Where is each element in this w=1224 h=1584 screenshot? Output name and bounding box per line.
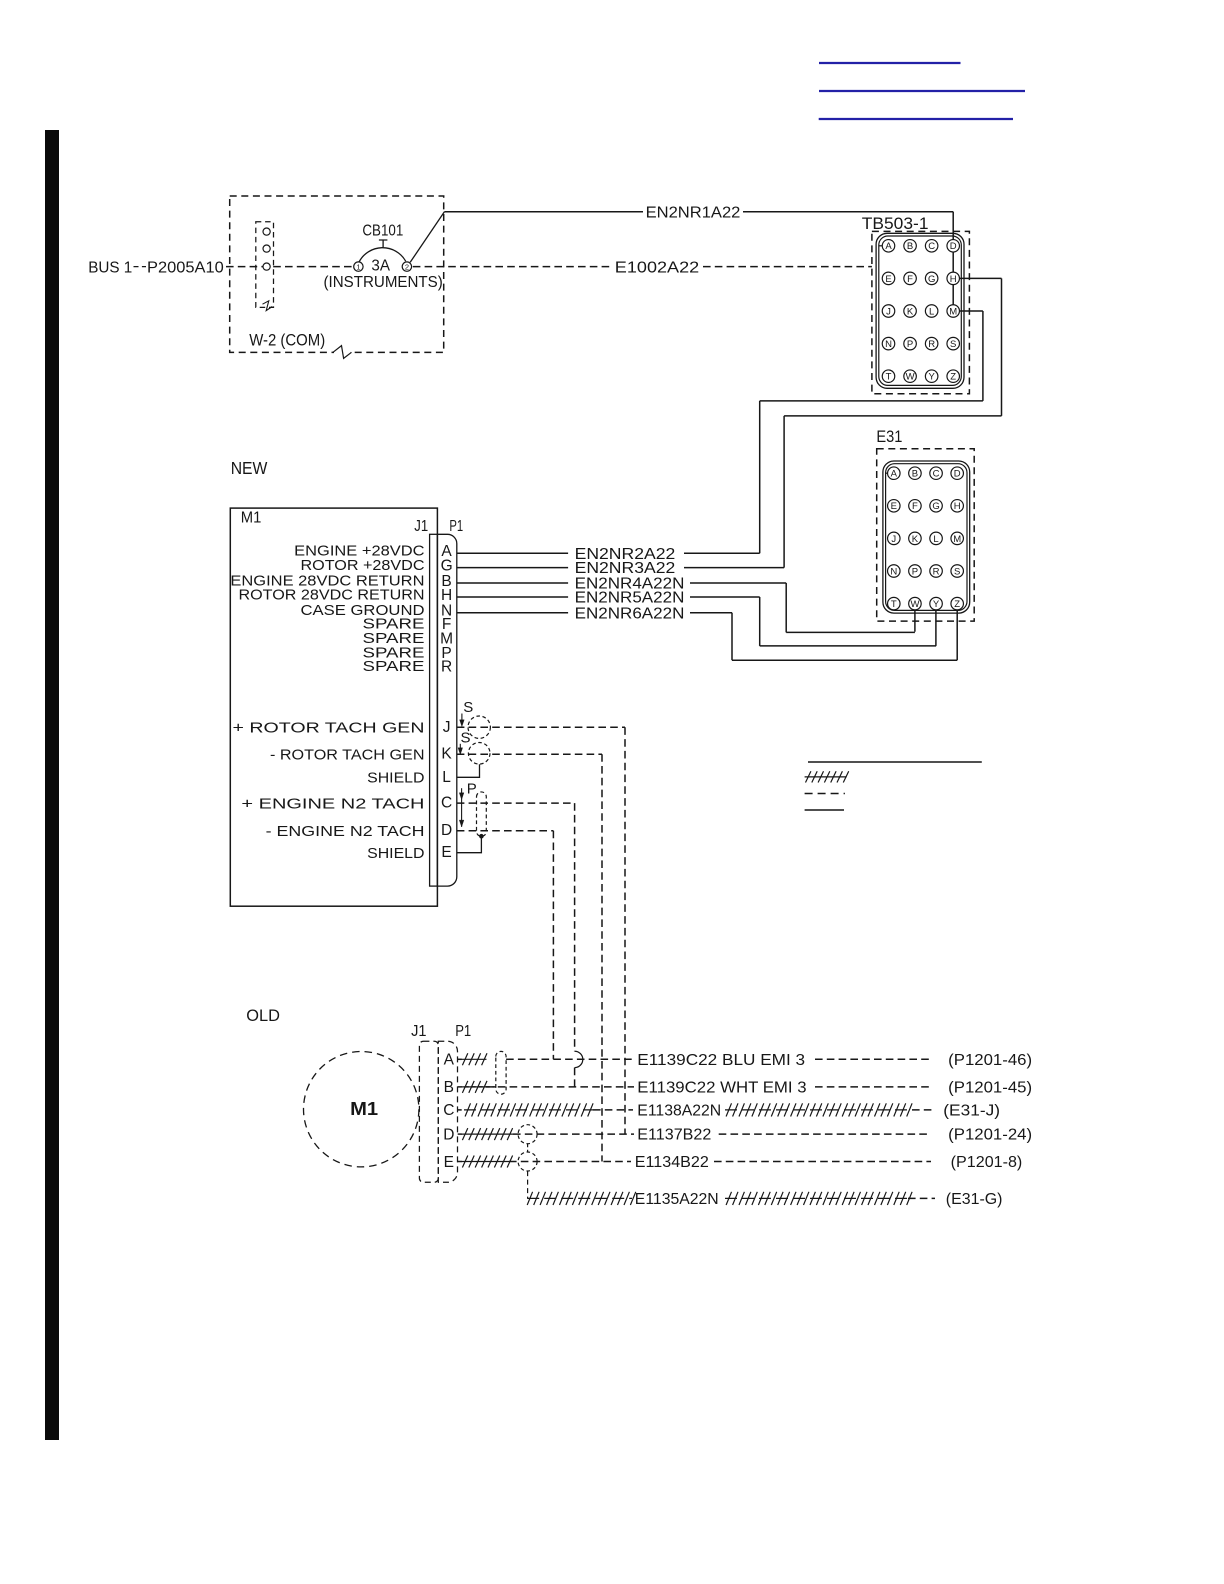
svg-text:2: 2 bbox=[405, 263, 409, 272]
svg-text:J1: J1 bbox=[414, 518, 428, 535]
svg-text:J: J bbox=[443, 719, 451, 736]
svg-text:N: N bbox=[885, 339, 892, 350]
svg-text:SHIELD: SHIELD bbox=[367, 845, 425, 862]
svg-text:Y: Y bbox=[933, 599, 940, 610]
svg-text:1: 1 bbox=[356, 263, 360, 272]
svg-text:C: C bbox=[443, 1102, 454, 1119]
svg-text:ROTOR 28VDC RETURN: ROTOR 28VDC RETURN bbox=[239, 586, 425, 603]
svg-text:D: D bbox=[954, 469, 961, 480]
svg-text:D: D bbox=[443, 1126, 454, 1143]
svg-text:S: S bbox=[950, 339, 956, 350]
svg-text:W: W bbox=[910, 599, 919, 610]
svg-text:H: H bbox=[441, 587, 452, 604]
svg-text:C: C bbox=[928, 241, 935, 252]
svg-text:Z: Z bbox=[950, 372, 956, 383]
svg-text:P: P bbox=[912, 566, 918, 577]
svg-text:E: E bbox=[891, 501, 897, 512]
svg-text:E1134B22: E1134B22 bbox=[635, 1154, 709, 1171]
svg-text:B: B bbox=[907, 241, 913, 252]
svg-text:B: B bbox=[912, 469, 918, 480]
svg-text:- ENGINE N2 TACH: - ENGINE N2 TACH bbox=[266, 823, 425, 840]
svg-text:E1138A22N: E1138A22N bbox=[637, 1103, 721, 1120]
svg-text:E1139C22 WHT EMI 3: E1139C22 WHT EMI 3 bbox=[637, 1080, 806, 1097]
svg-text:E1002A22: E1002A22 bbox=[615, 259, 700, 276]
svg-text:S: S bbox=[463, 699, 473, 716]
svg-text:EN2NR5A22N: EN2NR5A22N bbox=[575, 590, 685, 607]
svg-text:(P1201-8): (P1201-8) bbox=[951, 1154, 1023, 1171]
svg-text:R: R bbox=[928, 339, 935, 350]
svg-text:T: T bbox=[886, 372, 892, 383]
svg-text:- ROTOR TACH GEN: - ROTOR TACH GEN bbox=[270, 747, 425, 764]
svg-text:W-2 (COM): W-2 (COM) bbox=[249, 332, 325, 350]
svg-text:L: L bbox=[933, 534, 938, 545]
svg-text:G: G bbox=[928, 274, 935, 285]
svg-text:F: F bbox=[907, 274, 913, 285]
svg-text:+ ROTOR TACH GEN: + ROTOR TACH GEN bbox=[233, 720, 425, 737]
svg-text:J: J bbox=[886, 306, 891, 317]
svg-text:D: D bbox=[441, 822, 452, 839]
svg-text:E: E bbox=[441, 844, 451, 861]
svg-text:F: F bbox=[912, 501, 918, 512]
svg-text:A: A bbox=[885, 241, 892, 252]
svg-text:K: K bbox=[912, 534, 919, 545]
svg-text:SHIELD: SHIELD bbox=[367, 770, 425, 787]
svg-text:BUS 1: BUS 1 bbox=[88, 259, 132, 276]
svg-text:Y: Y bbox=[928, 372, 935, 383]
svg-text:W: W bbox=[906, 372, 915, 383]
svg-text:E1139C22 BLU EMI 3: E1139C22 BLU EMI 3 bbox=[637, 1052, 805, 1069]
svg-text:(INSTRUMENTS): (INSTRUMENTS) bbox=[324, 274, 443, 291]
svg-text:C: C bbox=[441, 795, 452, 812]
svg-text:L: L bbox=[442, 769, 451, 786]
svg-text:M: M bbox=[949, 306, 957, 317]
svg-text:S: S bbox=[461, 730, 471, 747]
svg-text:J1: J1 bbox=[411, 1023, 426, 1040]
svg-text:P: P bbox=[467, 781, 477, 798]
svg-text:EN2NR6A22N: EN2NR6A22N bbox=[575, 605, 685, 622]
svg-text:(P1201-45): (P1201-45) bbox=[948, 1080, 1032, 1097]
svg-text:P1: P1 bbox=[455, 1023, 471, 1040]
svg-text:P2005A10: P2005A10 bbox=[147, 259, 224, 276]
svg-text:D: D bbox=[950, 241, 957, 252]
svg-text:E1137B22: E1137B22 bbox=[637, 1127, 711, 1144]
svg-text:SPARE: SPARE bbox=[363, 658, 425, 675]
svg-text:E1135A22N: E1135A22N bbox=[635, 1191, 719, 1208]
svg-text:B: B bbox=[444, 1079, 454, 1096]
svg-text:TB503-1: TB503-1 bbox=[862, 215, 929, 233]
svg-text:G: G bbox=[932, 501, 939, 512]
svg-text:3A: 3A bbox=[371, 258, 390, 275]
svg-text:E31: E31 bbox=[876, 428, 902, 446]
svg-text:+ ENGINE N2 TACH: + ENGINE N2 TACH bbox=[241, 795, 424, 812]
svg-text:H: H bbox=[954, 501, 961, 512]
svg-text:M1: M1 bbox=[350, 1098, 378, 1119]
svg-text:C: C bbox=[933, 469, 940, 480]
svg-text:S: S bbox=[954, 566, 960, 577]
svg-text:E: E bbox=[444, 1154, 454, 1171]
svg-text:OLD: OLD bbox=[246, 1006, 280, 1025]
svg-text:(P1201-24): (P1201-24) bbox=[948, 1127, 1032, 1144]
svg-text:P: P bbox=[907, 339, 913, 350]
svg-text:A: A bbox=[444, 1052, 455, 1069]
svg-text:M: M bbox=[953, 534, 961, 545]
svg-text:K: K bbox=[907, 306, 914, 317]
svg-text:R: R bbox=[933, 566, 940, 577]
svg-text:(E31-G): (E31-G) bbox=[946, 1191, 1003, 1208]
svg-text:E: E bbox=[885, 274, 891, 285]
svg-text:M1: M1 bbox=[241, 509, 262, 526]
svg-text:T: T bbox=[891, 599, 897, 610]
svg-text:K: K bbox=[441, 746, 452, 763]
svg-text:H: H bbox=[950, 274, 957, 285]
svg-text:EN2NR1A22: EN2NR1A22 bbox=[646, 205, 741, 222]
svg-text:NEW: NEW bbox=[231, 458, 268, 478]
svg-text:P1: P1 bbox=[449, 518, 463, 535]
svg-text:A: A bbox=[891, 469, 898, 480]
svg-text:(P1201-46): (P1201-46) bbox=[948, 1052, 1032, 1069]
svg-text:R: R bbox=[441, 658, 452, 675]
svg-text:L: L bbox=[929, 306, 934, 317]
svg-text:J: J bbox=[891, 534, 896, 545]
svg-text:(E31-J): (E31-J) bbox=[943, 1103, 1000, 1120]
svg-text:Z: Z bbox=[954, 599, 960, 610]
svg-text:CB101: CB101 bbox=[362, 223, 403, 240]
svg-text:N: N bbox=[890, 566, 897, 577]
